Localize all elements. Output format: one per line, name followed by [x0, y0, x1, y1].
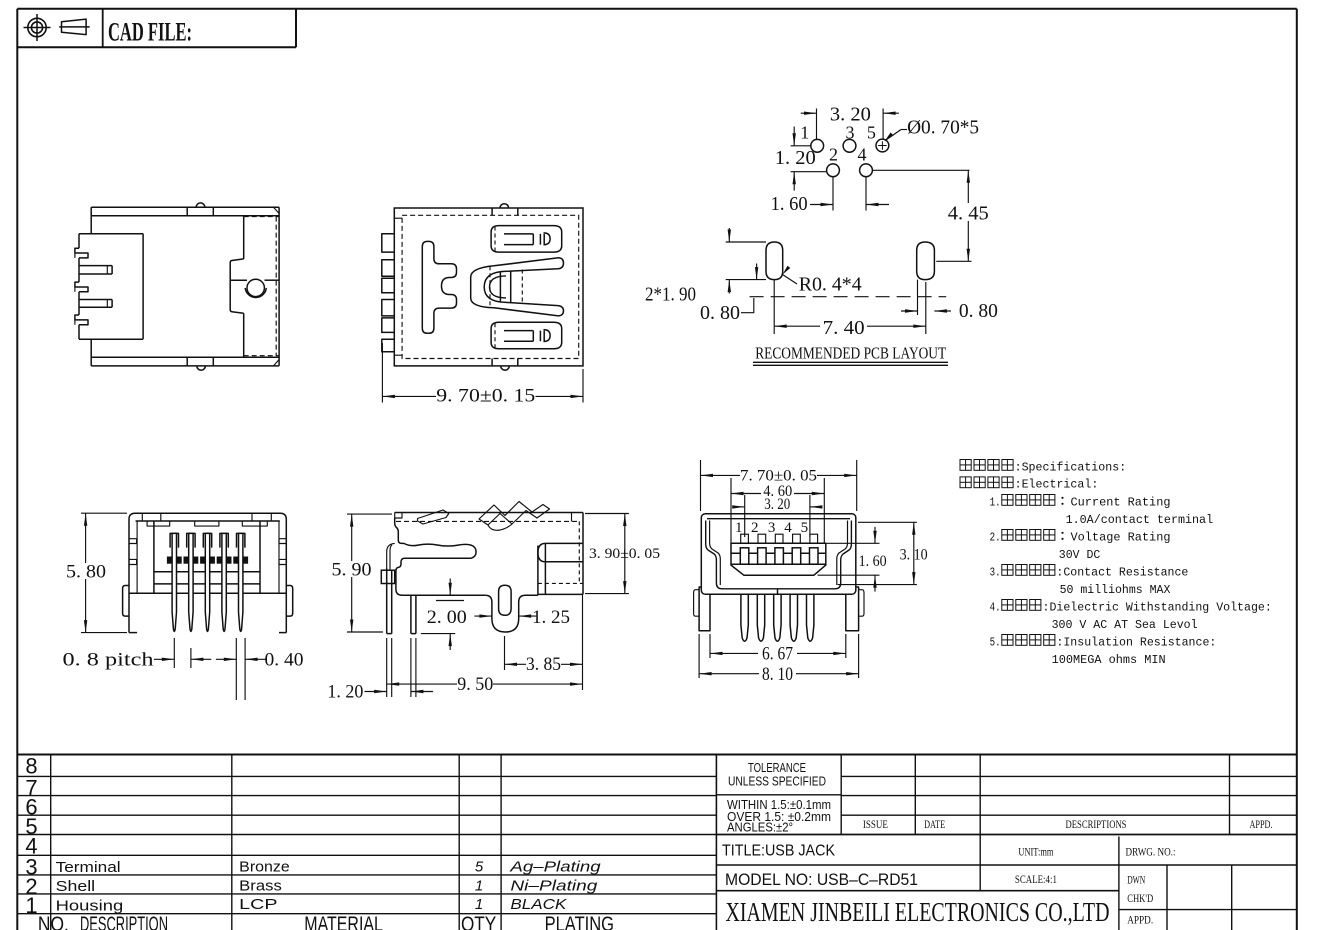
front view shell	[701, 514, 856, 595]
svg-text:300 V AC AT Sea Levol: 300 V AC AT Sea Levol	[1052, 618, 1198, 632]
svg-text:TOLERANCE: TOLERANCE	[748, 761, 806, 775]
svg-text:R0. 4*4: R0. 4*4	[799, 274, 862, 296]
svg-text:1: 1	[475, 896, 483, 913]
dimension 1.20 (row offset)	[791, 145, 811, 147]
pcb pad 5	[876, 139, 889, 152]
svg-text:QTY: QTY	[461, 913, 496, 930]
svg-text:8. 10: 8. 10	[762, 664, 793, 685]
svg-text:3. 90±0. 05: 3. 90±0. 05	[589, 546, 660, 562]
svg-text:MATERIAL: MATERIAL	[304, 913, 383, 930]
svg-text:100MEGA ohms MIN: 100MEGA ohms MIN	[1052, 653, 1166, 667]
svg-text:Ni–Plating: Ni–Plating	[510, 877, 598, 894]
slot reference lines	[726, 241, 766, 243]
svg-text:1: 1	[475, 877, 483, 894]
svg-text:BLACK: BLACK	[510, 896, 567, 913]
bottom view spring contact	[471, 258, 564, 316]
dimension 1.20	[386, 638, 388, 697]
svg-text:Brass: Brass	[239, 878, 282, 894]
first-angle projection symbol	[28, 18, 46, 36]
svg-text:ANGLES:±2°: ANGLES:±2°	[727, 821, 793, 835]
dimension 3.20 (pad span)	[816, 109, 818, 140]
svg-text:MODEL NO: USB–C–RD51: MODEL NO: USB–C–RD51	[725, 871, 918, 889]
front view ears	[699, 587, 710, 631]
svg-text:XIAMEN JINBEILI ELECTRONICS CO: XIAMEN JINBEILI ELECTRONICS CO.,LTD	[726, 897, 1110, 927]
front view pins	[741, 594, 748, 641]
svg-text:1. 20: 1. 20	[775, 147, 816, 169]
svg-text:Ø0. 70*5: Ø0. 70*5	[907, 117, 979, 139]
dimension 5.90	[347, 513, 392, 515]
svg-text:2. 00: 2. 00	[427, 607, 467, 628]
svg-text:DESCRIPTIONS: DESCRIPTIONS	[1066, 817, 1127, 831]
pcb slot left	[766, 242, 783, 280]
dimension 3.20 (front)	[744, 495, 746, 537]
svg-text:7. 40: 7. 40	[823, 317, 865, 339]
back view pins	[167, 557, 182, 564]
svg-text:1.: 1.	[990, 495, 1001, 509]
bom table grid	[17, 754, 1297, 756]
svg-text:3.: 3.	[990, 565, 1001, 579]
pcb pad 2	[827, 164, 840, 177]
svg-text:APPD.: APPD.	[1250, 817, 1273, 831]
bottom view lower contact slot	[491, 322, 562, 349]
svg-text:CHK'D: CHK'D	[1127, 891, 1153, 905]
svg-text:6. 67: 6. 67	[762, 643, 793, 664]
svg-text:1: 1	[735, 520, 743, 536]
svg-text:4.: 4.	[990, 600, 1001, 614]
dimension 7.70±0.05	[700, 460, 702, 511]
svg-text:4. 45: 4. 45	[948, 203, 989, 225]
svg-text:3. 85: 3. 85	[526, 654, 561, 675]
label Ø0.70*5 with leader	[885, 133, 893, 141]
svg-text:CAD FILE:: CAD FILE:	[108, 18, 192, 47]
bottom view shell outline	[394, 208, 583, 366]
svg-text:1. 20: 1. 20	[327, 682, 363, 703]
pcb pad 3	[843, 139, 856, 152]
svg-text:3. 20: 3. 20	[830, 104, 871, 126]
svg-text:APPD.: APPD.	[1127, 913, 1153, 927]
top view terminal comb	[79, 233, 143, 235]
dimension 3.10	[858, 521, 917, 523]
dimension 0.8 pitch	[173, 638, 175, 668]
svg-text:UNIT:mm: UNIT:mm	[1018, 845, 1053, 859]
svg-text:5. 90: 5. 90	[332, 559, 372, 580]
svg-text:LCP: LCP	[239, 897, 277, 913]
svg-text:4: 4	[784, 520, 792, 536]
dimension 9.50	[582, 594, 584, 690]
top view shell outline	[91, 206, 279, 208]
svg-text:5.: 5.	[990, 635, 1001, 649]
svg-text:0. 8 pitch: 0. 8 pitch	[63, 650, 155, 671]
svg-text:SCALE:4:1: SCALE:4:1	[1015, 872, 1057, 886]
svg-text:Terminal: Terminal	[56, 860, 121, 876]
svg-text:Voltage Rating: Voltage Rating	[1071, 530, 1171, 544]
dimension 3.85	[504, 636, 506, 670]
dimension 4.60	[730, 478, 732, 543]
svg-text:3. 10: 3. 10	[900, 547, 928, 564]
svg-text:ISSUE: ISSUE	[863, 817, 888, 831]
front view contacts	[741, 534, 749, 543]
svg-text:1. 60: 1. 60	[771, 193, 808, 215]
svg-text:2: 2	[829, 145, 838, 165]
dimension 2.00	[449, 579, 451, 596]
svg-text:DATE: DATE	[924, 817, 945, 831]
pcb slot right	[917, 242, 935, 280]
svg-text::Electrical:: :Electrical:	[1015, 478, 1099, 492]
svg-text::Dielectric Withstanding Volta: :Dielectric Withstanding Voltage:	[1043, 600, 1272, 614]
sheet border	[17, 8, 1297, 10]
svg-text:0. 40: 0. 40	[265, 650, 304, 671]
svg-text:1: 1	[25, 893, 37, 918]
svg-text:DWN: DWN	[1127, 873, 1145, 887]
dimension 0.80 right	[901, 310, 918, 312]
svg-text:2: 2	[751, 520, 759, 536]
back view shell	[129, 513, 286, 632]
svg-text:5: 5	[475, 858, 484, 875]
dimension 7.40	[774, 325, 820, 327]
svg-text:1.0A/contact terminal: 1.0A/contact terminal	[1066, 513, 1214, 527]
bottom view tongue profile	[422, 241, 456, 333]
dimension 2*1.90	[728, 228, 730, 242]
svg-text:PLATING: PLATING	[545, 913, 614, 930]
svg-text:DESCRIPTION: DESCRIPTION	[80, 913, 168, 930]
svg-text:3: 3	[768, 520, 776, 536]
svg-text:0. 80: 0. 80	[959, 300, 998, 322]
svg-text:50 milliohms MAX: 50 milliohms MAX	[1060, 583, 1171, 597]
svg-text:Shell: Shell	[56, 879, 96, 895]
dimension 8.10	[698, 634, 700, 678]
pcb pad 1	[811, 139, 824, 152]
pcb pad 4	[860, 164, 873, 177]
svg-text:1. 60: 1. 60	[859, 553, 887, 570]
dimension 1.25	[474, 615, 492, 617]
svg-text:9. 70±0. 15: 9. 70±0. 15	[436, 386, 535, 407]
svg-text:1: 1	[800, 122, 809, 142]
svg-text::Insulation Resistance:: :Insulation Resistance:	[1056, 635, 1216, 649]
dimension 9.70±0.15	[381, 343, 383, 403]
svg-text:9. 50: 9. 50	[457, 674, 493, 695]
dimension 5.80	[81, 512, 127, 514]
svg-text::Specifications:: :Specifications:	[1015, 460, 1127, 474]
dimension 1.60 (front)	[827, 542, 880, 544]
bottom view upper contact slot	[491, 226, 562, 253]
dimension R0.4*4 with leader	[783, 266, 791, 275]
svg-text:Current Rating: Current Rating	[1071, 495, 1171, 509]
svg-text:4: 4	[858, 145, 867, 165]
title block grid	[716, 794, 841, 796]
dimension 1.60 (pad pitch)	[832, 177, 834, 211]
side view body	[395, 512, 583, 514]
svg-text:1. 25: 1. 25	[532, 607, 570, 628]
svg-text:DRWG. NO.:: DRWG. NO.:	[1126, 845, 1176, 859]
dimension 0.40	[235, 638, 237, 700]
svg-text:5. 80: 5. 80	[66, 561, 106, 582]
svg-text:TITLE:USB JACK: TITLE:USB JACK	[722, 843, 835, 860]
svg-text::Contact Resistance: :Contact Resistance	[1056, 565, 1188, 579]
svg-text:0. 80: 0. 80	[700, 302, 740, 324]
svg-text:2.: 2.	[990, 530, 1001, 544]
header box	[17, 46, 296, 48]
svg-text:UNLESS SPECIFIED: UNLESS SPECIFIED	[728, 775, 826, 789]
svg-text:3. 20: 3. 20	[764, 496, 790, 513]
svg-text:NO.: NO.	[38, 913, 69, 930]
specifications text block	[960, 460, 971, 471]
svg-text:2*1. 90: 2*1. 90	[645, 283, 696, 305]
dimension 4.45 (row to slot)	[873, 169, 970, 171]
svg-text:30V DC: 30V DC	[1059, 548, 1101, 562]
svg-text:Bronze: Bronze	[239, 859, 290, 875]
dimension 3.90±0.05	[585, 513, 629, 515]
svg-text:RECOMMENDED PCB LAYOUT: RECOMMENDED PCB LAYOUT	[755, 344, 946, 363]
dimension 6.67	[709, 634, 711, 658]
svg-text:5: 5	[801, 520, 809, 536]
svg-text:Ag–Plating: Ag–Plating	[509, 858, 601, 875]
